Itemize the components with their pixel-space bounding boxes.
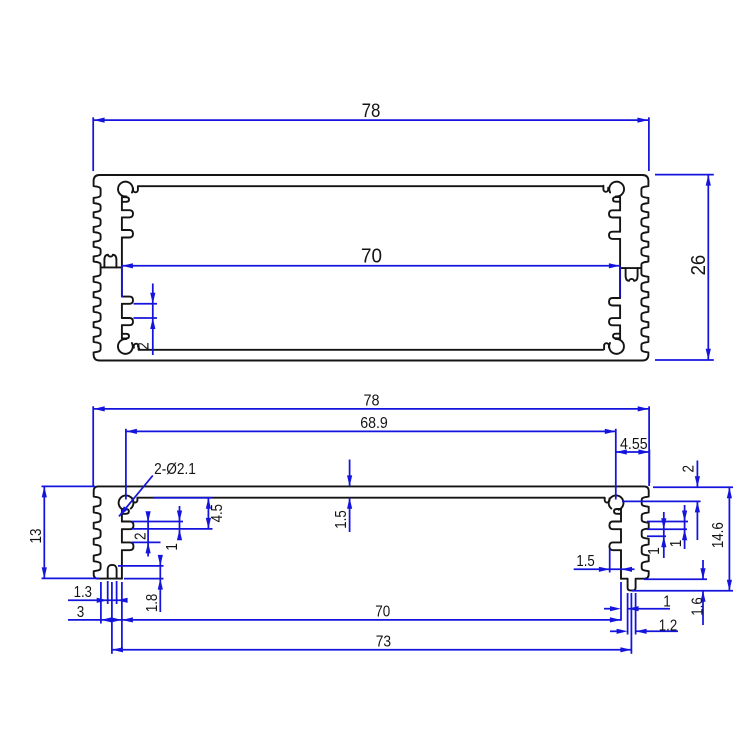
svg-text:1.3: 1.3 [74, 584, 92, 601]
top view: inner floor line [139, 349, 604, 351]
dimension 4.55 (right block offset) [616, 451, 650, 453]
dimension 78 (bottom view width) [94, 408, 649, 410]
dimension 1 (right rib slot) [684, 505, 686, 549]
svg-text:4.55: 4.55 [620, 436, 648, 453]
dimension 1.5 (right rib depth) [574, 568, 635, 570]
top view: right wall slit line [620, 267, 642, 269]
top view: left wall PCB rib 1 [122, 210, 133, 217]
svg-text:3: 3 [77, 604, 85, 621]
top view: top-right screw hole Ø2.1 [609, 182, 624, 197]
svg-text:26: 26 [688, 255, 710, 276]
top view: left wall PCB rib 3 [122, 297, 133, 304]
svg-text:1.5: 1.5 [576, 553, 594, 570]
svg-text:70: 70 [361, 246, 382, 268]
dimension 1.2 (leg width) [610, 630, 622, 632]
dimension 3 (left block bottom width) [68, 619, 122, 621]
svg-text:1.6: 1.6 [690, 597, 707, 615]
bottom view: plate underside line [137, 497, 604, 499]
svg-text:78: 78 [362, 101, 381, 122]
dimension 73 (between channel/leg centers) [112, 649, 632, 651]
svg-text:13: 13 [28, 528, 45, 543]
svg-text:4.5: 4.5 [209, 504, 226, 522]
svg-text:2: 2 [133, 532, 150, 540]
bottom view: cover plate outline with side blocks, serrated edges and right leg [94, 486, 649, 590]
svg-text:1: 1 [663, 594, 671, 611]
svg-text:68.9: 68.9 [360, 415, 388, 432]
dimension 1.5 (plate thickness) [349, 460, 351, 487]
dimension 4.5 (underside to rib) [207, 498, 209, 529]
top view: floor end hook at bottom-right boss [604, 343, 609, 349]
dimension 70 (between block faces) [122, 619, 621, 621]
dimension 1 (leg offset) [604, 608, 615, 610]
svg-text:78: 78 [364, 393, 380, 410]
dimension 70 (top view inner width) [122, 265, 620, 267]
top view: ceiling end hook at top-right boss [603, 186, 608, 192]
top view: small hook above bottom-left boss [122, 334, 129, 339]
top view: top-left screw hole Ø2.1 [118, 182, 133, 197]
top view: floor end hook at bottom-left boss [134, 344, 139, 350]
top view: small hook above bottom-right boss [613, 334, 620, 339]
top view: left wall n-tab [104, 255, 116, 268]
top view: outer shell of enclosure body with serrated sides [94, 175, 649, 361]
dimension 1 (right rib height) [663, 512, 665, 558]
top view: bottom-left screw hole Ø2.1 [118, 339, 133, 354]
svg-text:1: 1 [164, 543, 181, 551]
dimension 1.3 (channel width) [68, 599, 126, 601]
bottom view: left block inner face [121, 509, 123, 579]
top view: right wall PCB rib 2 [609, 298, 620, 306]
svg-text:1.8: 1.8 [144, 594, 161, 612]
dimension 14.6 (total height) [728, 487, 730, 591]
top view: right wall inner face [619, 197, 621, 339]
bottom view: right screw hole Ø2.1 [609, 495, 624, 509]
svg-text:2-Ø2.1: 2-Ø2.1 [154, 461, 196, 478]
top view: bottom-right screw hole Ø2.1 [609, 339, 624, 354]
dimension 1.8 (channel depth) [159, 556, 161, 612]
top view: ceiling end hook at top-left boss [133, 186, 138, 192]
bottom view: left block rib 2 [122, 542, 134, 550]
svg-text:1: 1 [646, 547, 663, 555]
top view: right wall PCB rib 3 [609, 232, 620, 239]
bottom view: left block bottom channel [108, 565, 117, 579]
svg-text:1.2: 1.2 [659, 618, 677, 635]
bottom view: small hook below right boss [614, 509, 621, 514]
top view: right wall PCB rib 4 [609, 210, 620, 217]
dimension 13 (left block height) [43, 486, 45, 578]
bottom view: small hook below left boss [122, 509, 129, 514]
svg-text:14.6: 14.6 [710, 522, 727, 548]
svg-text:1.5: 1.5 [333, 510, 350, 528]
svg-text:70: 70 [375, 604, 390, 621]
dimension 2 (left rib slot) [147, 512, 149, 557]
top view: left wall slit line [100, 266, 122, 268]
svg-text:1: 1 [668, 540, 685, 548]
svg-text:2: 2 [680, 465, 697, 473]
top view: inner ceiling line [138, 185, 603, 187]
bottom view: left screw hole Ø2.1 [119, 495, 134, 509]
dimension 2 (plate top to hook) [696, 461, 698, 488]
dimension 2 (top view PCB slot width) [152, 284, 154, 356]
dimension 1.6 (leg protrusion) [702, 560, 704, 579]
bottom view: right block inner face [620, 509, 622, 579]
dimension 26 (top view height) [707, 175, 709, 360]
top view: left wall PCB rib 2 [122, 230, 133, 238]
bottom view: underside hook at left boss [133, 498, 138, 503]
bottom view: right block rib 2 [609, 542, 621, 550]
top view: left wall inner face [121, 197, 123, 339]
svg-text:2: 2 [133, 342, 152, 350]
svg-text:73: 73 [376, 634, 391, 651]
dimension 1 (left rib height) [179, 506, 181, 540]
top view: small hook below top-left boss [122, 197, 129, 202]
bottom view: underside hook at right boss [605, 498, 610, 503]
bottom view: right block rib 1 [609, 522, 621, 530]
top view: small hook below top-right boss [613, 197, 620, 202]
dimension 68.9 (between screw hole centers) [126, 430, 616, 432]
dimension 78 (top view width) [94, 119, 649, 121]
top view: left wall PCB rib 4 [122, 318, 133, 325]
top view: right wall PCB rib 1 [609, 318, 620, 325]
bottom view: left block rib 1 [122, 522, 134, 530]
top view: right wall u-tab [626, 268, 638, 281]
